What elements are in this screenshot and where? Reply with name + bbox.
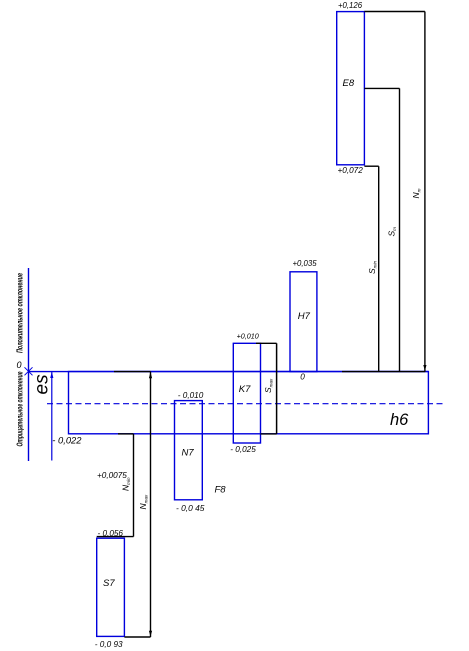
- svg-text:- 0,0 93: - 0,0 93: [95, 640, 123, 649]
- es arrowhead: [50, 372, 53, 378]
- svg-text:+0,126: +0,126: [338, 1, 363, 10]
- Smin bracket (E8): horizontal: [364, 165, 378, 167]
- es dimension line: [51, 372, 53, 461]
- svg-text:- 0,025: - 0,025: [230, 445, 256, 454]
- Nmax bottom cap: [124, 636, 150, 638]
- Smax bracket bottom cap: [261, 433, 277, 435]
- tolerance field h6: [69, 372, 429, 434]
- Smin bracket (E8): vertical: [378, 166, 380, 371]
- Nmax bracket (E8): top horizontal: [364, 11, 425, 13]
- tolerance field N7: [175, 401, 203, 500]
- svg-text:Nmax: Nmax: [138, 494, 148, 510]
- svg-text:- 0,022: - 0,022: [52, 435, 82, 446]
- origin cross tick: [25, 367, 33, 375]
- Sm bracket (E8): horizontal: [364, 87, 399, 89]
- Smax bracket vertical: [276, 343, 278, 434]
- svg-text:Smax: Smax: [263, 378, 273, 393]
- Nmin top cap: [97, 536, 134, 538]
- Nmax dimension line (S7): [150, 372, 152, 637]
- zero line: [29, 371, 429, 373]
- Nmax bracket (E8): vertical: [424, 12, 426, 372]
- svg-text:+0,035: +0,035: [293, 259, 318, 268]
- svg-text:Sm: Sm: [387, 227, 397, 237]
- h6 bottom edge black segment (Nmin reference): [118, 433, 133, 435]
- label Nmin (rotated): [121, 477, 131, 491]
- zero line black segment (S7 dimension reference): [114, 371, 151, 373]
- Nmin dimension line (S7): [133, 434, 135, 537]
- Nmax arrows: [149, 372, 152, 378]
- svg-text:- 0,0 45: - 0,0 45: [176, 503, 205, 513]
- svg-text:H7: H7: [298, 311, 311, 322]
- tolerance field K7: [233, 343, 260, 443]
- svg-text:+0,010: +0,010: [237, 332, 259, 341]
- Sm bracket (E8): vertical: [399, 88, 401, 371]
- svg-text:E8: E8: [343, 78, 355, 89]
- svg-text:K7: K7: [239, 384, 251, 395]
- zero line black segment (E8 dimension reference): [342, 371, 425, 373]
- svg-text:+0,072: +0,072: [338, 166, 364, 175]
- svg-text:N7: N7: [182, 448, 195, 459]
- deviation axis (vertical): [28, 268, 30, 461]
- tolerance field E8: [337, 12, 365, 165]
- svg-text:Положительное отклонение: Положительное отклонение: [15, 273, 24, 353]
- label Nmax (rotated): [138, 494, 148, 510]
- label N (rotated, E8 line): [411, 188, 421, 198]
- svg-text:h6: h6: [390, 411, 409, 429]
- svg-text:0: 0: [17, 360, 22, 370]
- svg-text:Smin: Smin: [367, 260, 377, 274]
- Smax bracket (K7/h6): top cap: [256, 342, 277, 344]
- svg-text:- 0,010: - 0,010: [178, 391, 204, 400]
- label Sm (rotated): [387, 227, 397, 237]
- svg-text:+0,0075: +0,0075: [97, 471, 127, 480]
- Nmax bracket (E8): bottom arrow: [423, 365, 426, 371]
- svg-text:0: 0: [300, 373, 305, 382]
- svg-text:es: es: [32, 374, 53, 395]
- label Smax K7 (rotated): [263, 378, 273, 393]
- label Smin (rotated): [367, 260, 377, 274]
- svg-text:Nm: Nm: [411, 188, 421, 198]
- center dashed line (middle of h6 field): [47, 403, 444, 405]
- tolerance field S7: [97, 538, 125, 636]
- svg-text:Отрицательное отклонение: Отрицательное отклонение: [15, 371, 24, 446]
- tolerance field H7: [290, 272, 317, 372]
- svg-text:F8: F8: [215, 485, 227, 496]
- svg-text:S7: S7: [103, 578, 115, 589]
